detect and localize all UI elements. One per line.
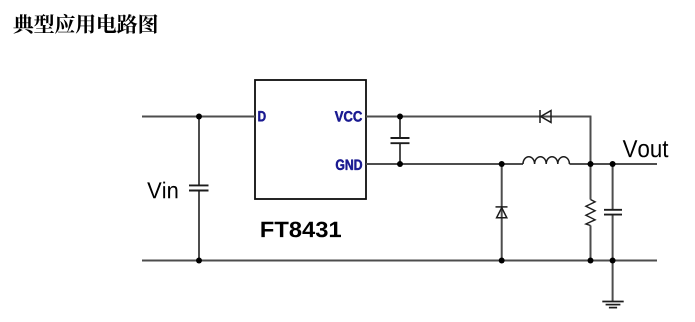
wire ground rail bottom — [142, 260, 657, 262]
capacitor C1 Vin — [189, 185, 209, 190]
pin label VCC — [335, 111, 362, 122]
diode D2 freewheel (cathode up) — [496, 207, 508, 218]
wire C2 branch upper — [399, 117, 401, 139]
wire C2 branch lower — [399, 144, 401, 165]
pin label D — [258, 111, 265, 121]
node output R1 top junction — [588, 161, 594, 167]
wire right vertical VCC corner down to output node — [590, 116, 592, 200]
ground — [602, 302, 623, 308]
pin label GND — [336, 159, 362, 170]
wire inductor to Vout end — [570, 163, 658, 165]
node switch D2 top junction — [499, 161, 505, 167]
wire C3 branch lower to ground — [612, 215, 614, 301]
IC U1 FT8431 body — [255, 80, 366, 199]
resistor R1 — [586, 200, 595, 226]
net label Vin — [147, 182, 177, 199]
wire C1 branch upper — [198, 117, 200, 186]
node VCC C2 top junction — [397, 114, 403, 120]
node GND C2 bottom junction — [397, 161, 403, 167]
wire GND pin to inductor — [366, 163, 523, 165]
capacitor C3 output — [604, 210, 622, 215]
node Vin rail junction — [196, 114, 202, 120]
diode D1 top (cathode left) — [540, 110, 551, 123]
node Vin bottom junction — [196, 258, 202, 264]
net label Vout — [623, 140, 669, 157]
wire Vin top rail — [142, 116, 255, 118]
node output C3 top junction — [610, 161, 616, 167]
inductor L1 — [523, 157, 569, 164]
node R1 bottom junction — [588, 258, 594, 264]
node C3 bottom junction — [610, 258, 616, 264]
node D2 bottom junction — [499, 258, 505, 264]
wire C3 branch upper — [612, 164, 614, 210]
label U1 value FT8431 — [261, 222, 341, 238]
wire resistor bottom lead — [590, 226, 592, 261]
title 典型应用电路图 — [13, 14, 157, 34]
capacitor C2 VCC bypass — [391, 138, 410, 143]
wire C1 branch lower — [198, 191, 200, 261]
wire VCC rail to right corner — [366, 116, 591, 118]
wire diode D2 branch — [501, 164, 503, 261]
